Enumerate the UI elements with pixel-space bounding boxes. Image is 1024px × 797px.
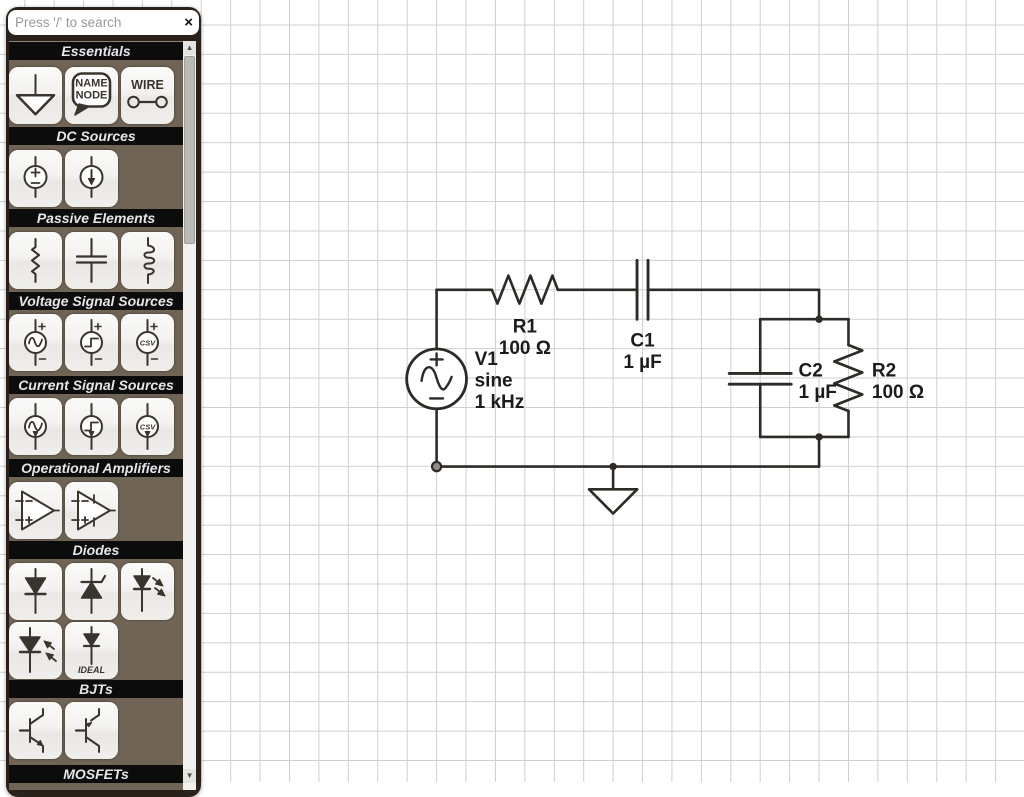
svg-text:NODE: NODE [76, 90, 108, 102]
svg-text:NAME: NAME [75, 78, 107, 90]
svg-text:sine: sine [475, 371, 513, 392]
svg-text:WIRE: WIRE [131, 78, 164, 92]
svg-text:100 Ω: 100 Ω [499, 338, 551, 359]
svg-text:CSV: CSV [140, 338, 156, 347]
svg-text:R2: R2 [872, 360, 896, 381]
svg-text:1 µF: 1 µF [799, 382, 837, 403]
svg-text:CSV: CSV [140, 422, 156, 431]
svg-text:R1: R1 [513, 316, 538, 337]
svg-text:1 kHz: 1 kHz [475, 392, 525, 413]
svg-text:C2: C2 [799, 360, 823, 381]
svg-text:V1: V1 [475, 349, 499, 370]
svg-text:1 µF: 1 µF [623, 352, 661, 373]
svg-text:100 Ω: 100 Ω [872, 382, 924, 403]
svg-text:IDEAL: IDEAL [78, 665, 105, 675]
svg-text:C1: C1 [630, 331, 655, 352]
